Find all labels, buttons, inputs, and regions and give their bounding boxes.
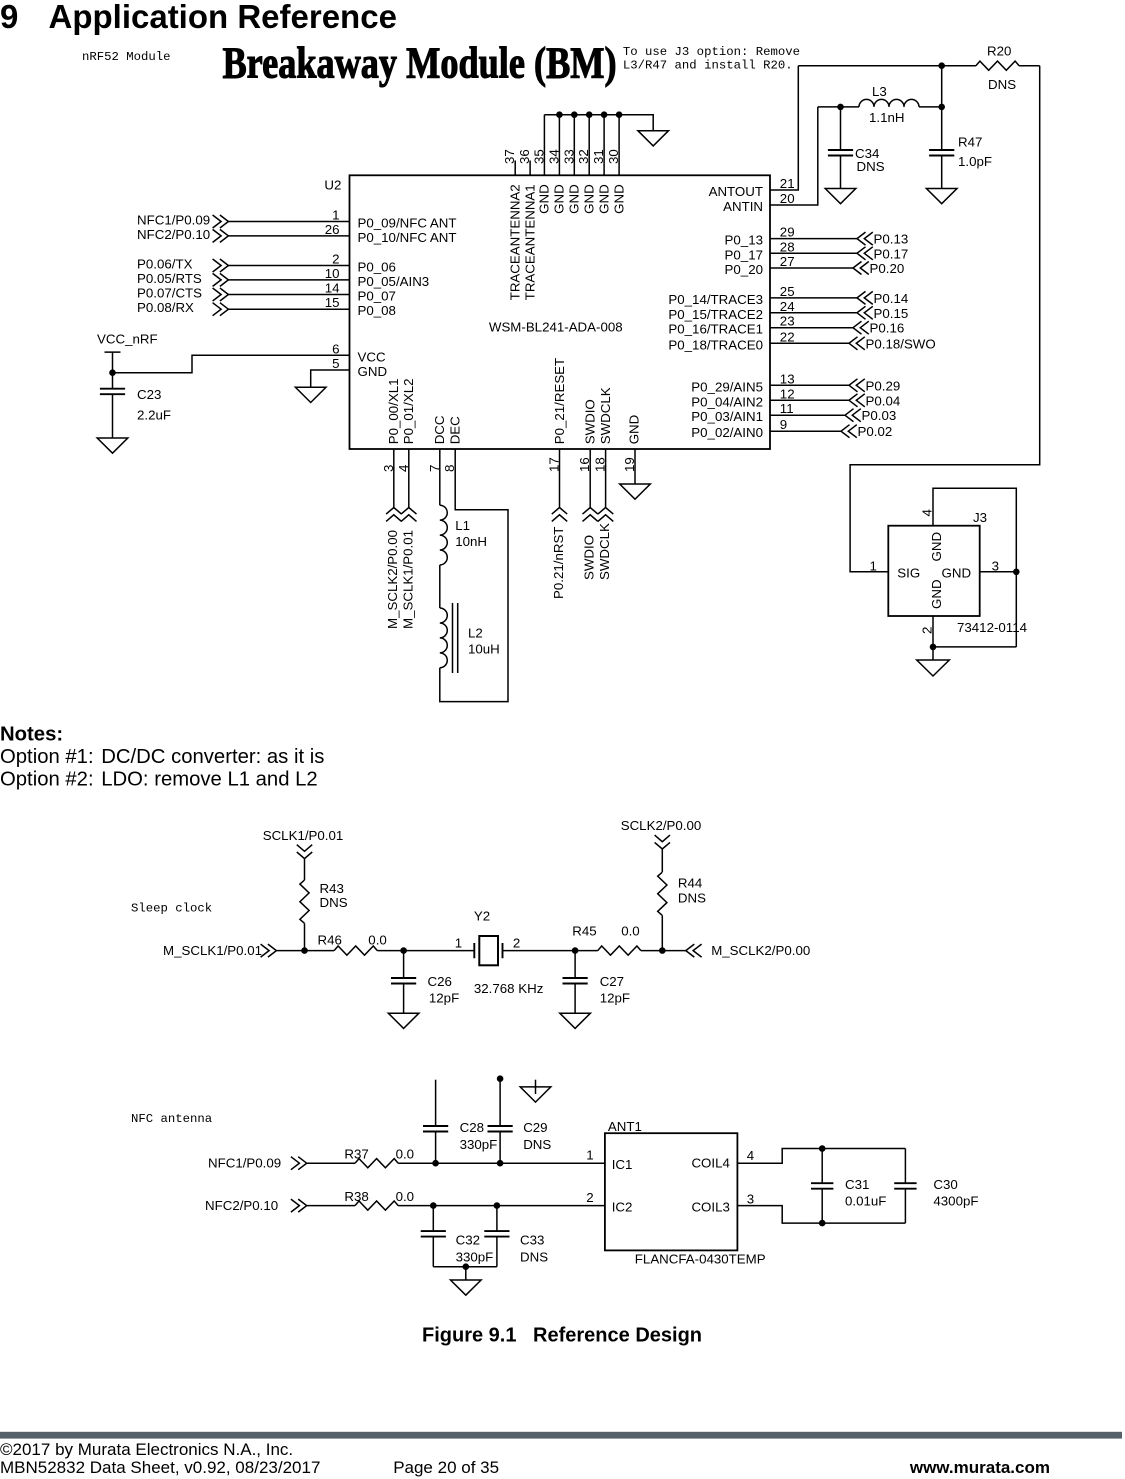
svg-text:R20: R20 bbox=[987, 43, 1011, 58]
svg-text:1: 1 bbox=[455, 936, 462, 951]
wire R20 left lead bbox=[942, 65, 976, 67]
svg-text:30: 30 bbox=[606, 149, 621, 164]
svg-text:R43: R43 bbox=[320, 881, 344, 896]
off-page connector P0.07/CTS bbox=[213, 288, 229, 301]
wire J3 gnd stub bbox=[932, 647, 934, 660]
svg-text:20: 20 bbox=[780, 191, 795, 206]
capacitor C28 bbox=[423, 1080, 448, 1164]
wire GND bus bbox=[544, 115, 653, 131]
wire pin 9 P0.02 bbox=[770, 430, 841, 432]
svg-text:Application Reference: Application Reference bbox=[49, 0, 397, 35]
svg-text:12pF: 12pF bbox=[429, 991, 459, 1006]
svg-text:MBN52832 Data Sheet, v0.92, 08: MBN52832 Data Sheet, v0.92, 08/23/2017 bbox=[0, 1458, 320, 1477]
svg-text:32.768 KHz: 32.768 KHz bbox=[474, 981, 543, 996]
ground pin 5 bbox=[295, 387, 326, 402]
svg-text:22: 22 bbox=[780, 329, 795, 344]
off-page connector SWDCLK bbox=[598, 508, 613, 522]
power symbol VCC_nRF bbox=[105, 352, 121, 373]
wire pin 23 P0.16 bbox=[770, 327, 853, 329]
junction NFC gnd bbox=[463, 1263, 470, 1270]
svg-text:P0_06: P0_06 bbox=[358, 260, 396, 275]
svg-text:P0.02: P0.02 bbox=[858, 424, 893, 439]
svg-text:P0_15/TRACE2: P0_15/TRACE2 bbox=[668, 307, 763, 322]
off-page connector P0.04 bbox=[849, 394, 865, 407]
off-page connector P0.08/RX bbox=[213, 303, 229, 316]
ground C29 bbox=[520, 1087, 551, 1102]
wire COIL4 to C31 rail bbox=[737, 1149, 905, 1164]
junction R44 bottom bbox=[659, 947, 666, 954]
svg-text:C27: C27 bbox=[600, 974, 624, 989]
svg-text:P0.03: P0.03 bbox=[862, 408, 897, 423]
wire SCLK2 to R44 bbox=[661, 849, 663, 872]
svg-text:1: 1 bbox=[586, 1148, 593, 1163]
wire R38 to ANT1 pin2 bbox=[398, 1205, 605, 1207]
svg-text:GND: GND bbox=[537, 184, 552, 214]
svg-text:P0.20: P0.20 bbox=[870, 261, 905, 276]
junction antenna node bbox=[938, 62, 945, 69]
svg-text:DNS: DNS bbox=[988, 77, 1016, 92]
off-page connector P0.20 bbox=[853, 262, 869, 275]
svg-text:C23: C23 bbox=[137, 387, 161, 402]
wire L3 right lead bbox=[919, 106, 942, 108]
wire pin 10 P0.05/RTS bbox=[228, 279, 349, 281]
svg-text:NFC1/P0.09: NFC1/P0.09 bbox=[137, 213, 210, 228]
svg-text:C33: C33 bbox=[520, 1232, 544, 1247]
junction GND bus 3 bbox=[586, 111, 593, 118]
off-page connector P0.16 bbox=[853, 321, 869, 334]
off-page connector SCLK2/P0.00 bbox=[655, 835, 670, 849]
svg-text:26: 26 bbox=[325, 222, 340, 237]
svg-text:29: 29 bbox=[780, 225, 795, 240]
svg-text:M_SCLK1/P0.01: M_SCLK1/P0.01 bbox=[163, 943, 262, 958]
svg-text:L3: L3 bbox=[872, 84, 887, 99]
off-page connector NFC2/P0.10 bbox=[291, 1199, 307, 1212]
ground C26 bbox=[388, 1013, 419, 1028]
wire R43 to junction bbox=[304, 923, 306, 950]
wire J3 pin 4 bbox=[933, 488, 1016, 572]
wire pin 36 stub bbox=[529, 161, 531, 176]
wire J3 right side down bbox=[1015, 572, 1017, 647]
capacitor C27 bbox=[563, 951, 588, 1014]
off-page connector P0.15 bbox=[857, 306, 873, 319]
wire VCC_nRF to pin 6 bbox=[113, 355, 350, 372]
resistor R43 bbox=[300, 880, 309, 923]
svg-text:35: 35 bbox=[531, 149, 546, 164]
svg-text:31: 31 bbox=[591, 149, 606, 164]
svg-text:ANTOUT: ANTOUT bbox=[709, 184, 763, 199]
off-page connector P0.21/nRST bbox=[552, 508, 567, 522]
off-page connector P0.18/SWO bbox=[849, 337, 865, 350]
svg-text:COIL3: COIL3 bbox=[691, 1200, 729, 1215]
svg-text:DNS: DNS bbox=[857, 159, 885, 174]
off-page connector M_SCLK1/P0.01 sleep bbox=[261, 944, 277, 957]
svg-text:M_SCLK2/P0.00: M_SCLK2/P0.00 bbox=[385, 530, 400, 629]
wire pin 33 to GND bus bbox=[573, 115, 575, 176]
capacitor C26 bbox=[391, 951, 416, 1014]
wire pin 16 bbox=[589, 449, 591, 508]
svg-text:32: 32 bbox=[576, 149, 591, 164]
wire pin 4 bbox=[408, 449, 410, 508]
svg-text:Figure 9.1 Reference Design: Figure 9.1 Reference Design bbox=[422, 1325, 702, 1347]
svg-text:P0_01/XL2: P0_01/XL2 bbox=[401, 378, 416, 444]
svg-text:Notes:: Notes: bbox=[0, 724, 63, 746]
wire R37 to ANT1 pin1 bbox=[398, 1162, 605, 1164]
svg-text:P0_00/XL1: P0_00/XL1 bbox=[386, 378, 401, 444]
svg-text:VCC: VCC bbox=[358, 349, 386, 364]
junction GND bus 2 bbox=[571, 111, 578, 118]
wire R44 to junction bbox=[661, 916, 663, 951]
svg-text:Option #1: DC/DC converter: as: Option #1: DC/DC converter: as it is bbox=[0, 746, 324, 768]
svg-text:GND: GND bbox=[611, 184, 626, 214]
svg-text:C32: C32 bbox=[456, 1232, 480, 1247]
wire M_SCLK1 to R46 bbox=[276, 950, 334, 952]
wire pin 12 P0.04 bbox=[770, 399, 849, 401]
off-page connector P0.03 bbox=[845, 409, 861, 422]
wire pin 19 GND bbox=[634, 449, 636, 484]
svg-text:P0_17: P0_17 bbox=[725, 247, 763, 262]
wire Y2 to C27 node bbox=[503, 950, 598, 952]
svg-text:DNS: DNS bbox=[523, 1137, 551, 1152]
svg-text:R47: R47 bbox=[958, 135, 982, 150]
svg-text:13: 13 bbox=[780, 371, 795, 386]
IC U2 WSM-BL241-ADA-008 body bbox=[350, 175, 771, 449]
capacitor C31 bbox=[811, 1149, 833, 1224]
svg-text:P0.16: P0.16 bbox=[870, 321, 905, 336]
svg-text:J3: J3 bbox=[973, 510, 987, 525]
svg-text:27: 27 bbox=[780, 254, 795, 269]
svg-text:SWDCLK: SWDCLK bbox=[597, 523, 612, 580]
svg-text:WSM-BL241-ADA-008: WSM-BL241-ADA-008 bbox=[489, 320, 623, 335]
svg-text:www.murata.com: www.murata.com bbox=[909, 1458, 1050, 1477]
svg-text:SIG: SIG bbox=[897, 566, 920, 581]
resistor R38 bbox=[355, 1201, 398, 1210]
off-page connector M_SCLK2/P0.00 sleep bbox=[686, 944, 702, 957]
svg-text:NFC1/P0.09: NFC1/P0.09 bbox=[208, 1156, 281, 1171]
ground C27 bbox=[560, 1013, 591, 1028]
svg-text:6: 6 bbox=[332, 341, 339, 356]
connector J3 body bbox=[888, 526, 979, 616]
svg-text:SCLK1/P0.01: SCLK1/P0.01 bbox=[263, 828, 344, 843]
wire SCLK1 to R43 bbox=[304, 859, 306, 880]
wire R46 to C26 node bbox=[377, 950, 474, 952]
svg-text:P0_07: P0_07 bbox=[358, 289, 396, 304]
svg-text:Breakaway Module (BM): Breakaway Module (BM) bbox=[223, 38, 617, 87]
capacitor C23 bbox=[100, 373, 125, 438]
svg-text:DNS: DNS bbox=[520, 1249, 548, 1264]
svg-text:ANTIN: ANTIN bbox=[723, 199, 763, 214]
off-page connector P0.29 bbox=[849, 379, 865, 392]
junction C26 bbox=[400, 947, 407, 954]
svg-text:P0.21/nRST: P0.21/nRST bbox=[551, 527, 566, 599]
svg-text:Option #2: LDO: remove L1 and: Option #2: LDO: remove L1 and L2 bbox=[0, 769, 318, 791]
wire C32 C33 gnd join bbox=[433, 1266, 497, 1268]
off-page connector NFC1/P0.09 bbox=[291, 1157, 307, 1170]
junction GND bus 1 bbox=[556, 111, 563, 118]
wire pin 2 P0.06/TX bbox=[228, 265, 349, 267]
svg-text:COIL4: COIL4 bbox=[691, 1156, 729, 1171]
svg-text:14: 14 bbox=[325, 281, 340, 296]
svg-text:P0.13: P0.13 bbox=[874, 232, 909, 247]
wire NFC2 to R38 bbox=[307, 1205, 355, 1207]
junction C31 bottom bbox=[819, 1220, 826, 1227]
svg-text:P0.05/RTS: P0.05/RTS bbox=[137, 271, 202, 286]
junction C31 top bbox=[819, 1145, 826, 1152]
svg-text:21: 21 bbox=[780, 176, 795, 191]
capacitor R47 (1.0pF) bbox=[929, 66, 954, 189]
wire pin 13 P0.29 bbox=[770, 384, 849, 386]
svg-text:TRACEANTENNA2: TRACEANTENNA2 bbox=[508, 184, 523, 300]
svg-text:1: 1 bbox=[332, 208, 339, 223]
svg-text:GND: GND bbox=[942, 566, 972, 581]
svg-text:nRF52 Module: nRF52 Module bbox=[82, 50, 171, 64]
svg-text:DNS: DNS bbox=[678, 891, 706, 906]
svg-text:1: 1 bbox=[869, 558, 876, 573]
resistor R44 bbox=[658, 872, 667, 915]
wire pin 7 DCC bbox=[439, 449, 441, 505]
svg-text:GND: GND bbox=[929, 579, 944, 609]
svg-text:M_SCLK1/P0.01: M_SCLK1/P0.01 bbox=[401, 530, 416, 629]
svg-text:C28: C28 bbox=[460, 1120, 484, 1135]
off-page connector SCLK1/P0.01 bbox=[297, 845, 312, 859]
off-page connector P0.13 bbox=[857, 232, 873, 245]
capacitor C33 bbox=[484, 1206, 509, 1267]
wire R20 right lead bbox=[1019, 65, 1040, 67]
junction C28 bbox=[432, 1160, 439, 1167]
off-page connector P0.14 bbox=[857, 291, 873, 304]
svg-text:10: 10 bbox=[325, 266, 340, 281]
svg-text:SWDCLK: SWDCLK bbox=[598, 387, 613, 444]
svg-text:NFC antenna: NFC antenna bbox=[131, 1112, 212, 1126]
svg-text:0.0: 0.0 bbox=[396, 1189, 415, 1204]
svg-text:C30: C30 bbox=[933, 1177, 957, 1192]
svg-text:Page 20 of 35: Page 20 of 35 bbox=[393, 1458, 499, 1477]
wire NFC1 to R37 bbox=[307, 1162, 355, 1164]
resistor R20 bbox=[976, 61, 1019, 70]
svg-text:12pF: 12pF bbox=[600, 991, 630, 1006]
svg-text:ANT1: ANT1 bbox=[608, 1119, 642, 1134]
svg-text:P0_05/AIN3: P0_05/AIN3 bbox=[358, 274, 430, 289]
svg-text:P0.15: P0.15 bbox=[874, 306, 909, 321]
ground J3 bbox=[917, 660, 950, 676]
svg-text:P0.17: P0.17 bbox=[874, 246, 909, 261]
svg-text:P0_04/AIN2: P0_04/AIN2 bbox=[691, 394, 763, 409]
inductor L3 bbox=[859, 99, 919, 106]
svg-text:4: 4 bbox=[747, 1148, 754, 1163]
svg-text:0.0: 0.0 bbox=[396, 1147, 415, 1162]
svg-text:25: 25 bbox=[780, 284, 795, 299]
svg-text:P0.14: P0.14 bbox=[874, 291, 909, 306]
svg-text:NFC2/P0.10: NFC2/P0.10 bbox=[137, 227, 210, 242]
off-page connector P0.05/RTS bbox=[213, 273, 229, 286]
off-page connector SWDIO bbox=[583, 508, 598, 522]
svg-text:P0_20: P0_20 bbox=[725, 262, 763, 277]
capacitor C32 bbox=[421, 1206, 446, 1267]
resistor R45 bbox=[598, 946, 641, 955]
wire R45 to R44 node bbox=[641, 950, 686, 952]
svg-text:GND: GND bbox=[929, 532, 944, 562]
wire COIL3 to C31 rail bbox=[737, 1206, 905, 1224]
svg-text:SWDIO: SWDIO bbox=[583, 399, 598, 444]
svg-text:R38: R38 bbox=[344, 1189, 368, 1204]
svg-text:P0_02/AIN0: P0_02/AIN0 bbox=[691, 425, 763, 440]
off-page connector M_SCLK1/P0.01 bbox=[401, 508, 416, 522]
inductor L2 core bars bbox=[453, 603, 458, 673]
capacitor C30 bbox=[894, 1149, 916, 1224]
wire L3 left lead bbox=[818, 106, 859, 108]
svg-text:VCC_nRF: VCC_nRF bbox=[97, 332, 158, 347]
junction C32 bbox=[430, 1202, 437, 1209]
antenna ANT1 body bbox=[605, 1133, 738, 1250]
footer bar bbox=[0, 1432, 1122, 1439]
junction GND bus 4 bbox=[601, 111, 608, 118]
svg-text:U2: U2 bbox=[324, 178, 341, 193]
svg-text:P0_14/TRACE3: P0_14/TRACE3 bbox=[668, 292, 763, 307]
svg-text:L3/R47 and install R20.: L3/R47 and install R20. bbox=[623, 59, 793, 73]
svg-text:330pF: 330pF bbox=[456, 1249, 494, 1264]
svg-text:10nH: 10nH bbox=[455, 534, 487, 549]
off-page connector M_SCLK2/P0.00 bbox=[386, 508, 401, 522]
svg-text:9: 9 bbox=[780, 417, 787, 432]
off-page connector P0.17 bbox=[857, 247, 873, 260]
svg-text:9: 9 bbox=[0, 0, 18, 35]
ground NFC antenna bbox=[451, 1280, 482, 1295]
svg-text:330pF: 330pF bbox=[460, 1137, 498, 1152]
svg-text:DEC: DEC bbox=[448, 416, 463, 444]
off-page connector P0.02 bbox=[841, 425, 857, 438]
wire pin 35 to GND bus bbox=[543, 115, 545, 176]
wire pin 17 bbox=[559, 449, 561, 508]
svg-text:L2: L2 bbox=[468, 625, 483, 640]
svg-text:GND: GND bbox=[596, 184, 611, 214]
svg-text:IC2: IC2 bbox=[612, 1200, 633, 1215]
svg-text:10uH: 10uH bbox=[468, 641, 500, 656]
svg-text:To use J3 option: Remove: To use J3 option: Remove bbox=[623, 45, 800, 59]
wire J3 pin 3 bbox=[980, 571, 1017, 573]
svg-text:28: 28 bbox=[780, 239, 795, 254]
junction C27 bbox=[572, 947, 579, 954]
ground pin 19 bbox=[620, 484, 651, 499]
svg-text:15: 15 bbox=[325, 295, 340, 310]
svg-text:37: 37 bbox=[502, 149, 517, 164]
ground C23 bbox=[97, 438, 128, 453]
svg-text:C31: C31 bbox=[845, 1177, 869, 1192]
resistor R37 bbox=[355, 1159, 398, 1168]
svg-text:P0.29: P0.29 bbox=[866, 378, 901, 393]
wire C29 gnd stub bbox=[535, 1080, 537, 1094]
ground C34 bbox=[825, 189, 856, 204]
svg-text:GND: GND bbox=[358, 364, 388, 379]
svg-text:24: 24 bbox=[780, 299, 795, 314]
svg-text:DCC: DCC bbox=[432, 415, 447, 444]
wire pin 18 bbox=[605, 449, 607, 508]
svg-text:P0.18/SWO: P0.18/SWO bbox=[866, 336, 936, 351]
wire pin 21 ANTOUT bbox=[770, 66, 798, 190]
wire NFC gnd stub bbox=[465, 1267, 467, 1280]
wire pin 26 NFC2/P0.10 bbox=[228, 235, 349, 237]
wire pin 25 P0.14 bbox=[770, 297, 857, 299]
junction GND bus 5 bbox=[616, 111, 623, 118]
wire pin 37 stub bbox=[514, 161, 516, 176]
svg-text:2: 2 bbox=[513, 936, 520, 951]
ground GND bus bbox=[638, 131, 669, 146]
junction J3 pin 3 bbox=[1013, 569, 1020, 576]
wire J3 pin 2 bbox=[933, 616, 1016, 647]
wire pin 29 P0.13 bbox=[770, 238, 857, 240]
svg-text:C26: C26 bbox=[428, 974, 452, 989]
svg-text:P0_03/AIN1: P0_03/AIN1 bbox=[691, 409, 763, 424]
off-page connector NFC2/P0.10 bbox=[213, 229, 229, 242]
svg-text:2: 2 bbox=[586, 1190, 593, 1205]
svg-text:GND: GND bbox=[626, 415, 641, 445]
svg-text:SCLK2/P0.00: SCLK2/P0.00 bbox=[621, 818, 702, 833]
svg-text:P0_10/NFC ANT: P0_10/NFC ANT bbox=[358, 230, 457, 245]
svg-text:4300pF: 4300pF bbox=[933, 1194, 978, 1209]
svg-text:36: 36 bbox=[517, 149, 532, 164]
wire pin 22 P0.18/SWO bbox=[770, 342, 849, 344]
wire ANTOUT to R20 bbox=[798, 65, 941, 67]
svg-text:P0_08: P0_08 bbox=[358, 303, 396, 318]
svg-text:GND: GND bbox=[552, 184, 567, 214]
wire pin 24 P0.15 bbox=[770, 312, 857, 314]
svg-text:GND: GND bbox=[567, 184, 582, 214]
svg-text:P0.04: P0.04 bbox=[866, 393, 901, 408]
svg-text:FLANCFA-0430TEMP: FLANCFA-0430TEMP bbox=[635, 1251, 766, 1266]
svg-text:0.0: 0.0 bbox=[368, 933, 387, 948]
wire pin 1 NFC1/P0.09 bbox=[228, 221, 349, 223]
svg-text:C29: C29 bbox=[523, 1120, 547, 1135]
svg-text:L1: L1 bbox=[455, 518, 470, 533]
svg-text:IC1: IC1 bbox=[612, 1157, 633, 1172]
svg-text:3: 3 bbox=[747, 1192, 754, 1207]
svg-text:P0_21/RESET: P0_21/RESET bbox=[552, 358, 567, 444]
wire pin 34 to GND bus bbox=[558, 115, 560, 176]
svg-text:P0_18/TRACE0: P0_18/TRACE0 bbox=[668, 337, 763, 352]
junction L3 right bbox=[938, 104, 945, 111]
wire pin 5 GND bbox=[311, 370, 350, 387]
svg-text:R46: R46 bbox=[318, 933, 342, 948]
svg-text:P0.07/CTS: P0.07/CTS bbox=[137, 286, 202, 301]
junction L3 left bbox=[837, 104, 844, 111]
wire pin 32 to GND bus bbox=[588, 115, 590, 176]
junction C33 bbox=[494, 1202, 501, 1209]
svg-text:2: 2 bbox=[332, 252, 339, 267]
svg-text:23: 23 bbox=[780, 314, 795, 329]
svg-text:33: 33 bbox=[561, 149, 576, 164]
svg-text:12: 12 bbox=[780, 386, 795, 401]
svg-text:Y2: Y2 bbox=[474, 909, 490, 924]
svg-text:P0_16/TRACE1: P0_16/TRACE1 bbox=[668, 322, 763, 337]
wire R20 to J3 pin 1 bbox=[850, 66, 1040, 572]
svg-text:0.0: 0.0 bbox=[621, 923, 640, 938]
wire pin 31 to GND bus bbox=[603, 115, 605, 176]
junction C29 bbox=[497, 1160, 504, 1167]
svg-text:DNS: DNS bbox=[320, 895, 348, 910]
capacitor C29 bbox=[488, 1079, 513, 1164]
svg-text:P0.08/RX: P0.08/RX bbox=[137, 300, 194, 315]
off-page connector NFC1/P0.09 bbox=[213, 215, 229, 228]
svg-text:R37: R37 bbox=[344, 1147, 368, 1162]
svg-text:GND: GND bbox=[582, 184, 597, 214]
inductor L2 bbox=[440, 608, 447, 668]
junction C29 top bbox=[497, 1075, 504, 1082]
junction J3 pin 2 bbox=[930, 644, 937, 651]
capacitor C34 bbox=[828, 107, 853, 189]
svg-text:M_SCLK2/P0.00: M_SCLK2/P0.00 bbox=[711, 943, 810, 958]
svg-text:P0.06/TX: P0.06/TX bbox=[137, 257, 193, 272]
svg-text:2.2uF: 2.2uF bbox=[137, 407, 171, 422]
svg-text:1.0pF: 1.0pF bbox=[958, 154, 992, 169]
wire pin 3 bbox=[393, 449, 395, 508]
